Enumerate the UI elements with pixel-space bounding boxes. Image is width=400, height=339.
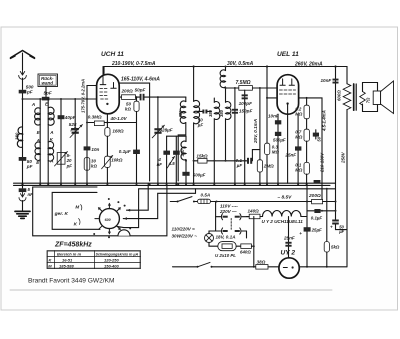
wire coil column right	[47, 99, 49, 183]
tube UY2	[279, 258, 299, 278]
svg-text:16-51: 16-51	[62, 257, 73, 262]
wire chassis bus lower	[14, 184, 331, 186]
svg-text:kΩ: kΩ	[91, 164, 97, 169]
svg-text:210-190V, 0-7.5mA: 210-190V, 0-7.5mA	[111, 61, 156, 67]
svg-text:120-250: 120-250	[104, 257, 119, 262]
resistor secondary zigzag	[360, 92, 366, 106]
svg-text:10nF: 10nF	[321, 78, 332, 83]
resistor 5kOhm	[326, 189, 328, 242]
antenna socket cup	[19, 76, 27, 80]
capacitor 0.1uF osc	[133, 150, 140, 154]
svg-text:260V, 20mA: 260V, 20mA	[294, 62, 323, 68]
svg-text:100pF: 100pF	[239, 101, 252, 106]
svg-text:15kΩ: 15kΩ	[196, 154, 208, 159]
wire AVC column	[86, 99, 88, 183]
wire to UEL left	[267, 97, 277, 99]
node input dot	[22, 98, 24, 100]
svg-text:µF: µF	[236, 163, 243, 168]
capacitor 4nF	[166, 136, 168, 183]
capacitor 25nF UY2	[288, 217, 290, 258]
svg-text:10kΩ: 10kΩ	[111, 158, 123, 163]
wire 7.5M to UEL grid	[252, 87, 277, 89]
heater chain bumps	[260, 211, 307, 217]
svg-text:640Ω: 640Ω	[240, 250, 251, 255]
inductor antenna coil 380	[17, 127, 22, 147]
inductor IF1 secondary	[194, 100, 200, 123]
ground socket cup	[19, 198, 26, 202]
UEL11 grid dashes	[279, 90, 295, 94]
inductor osc anode coil	[225, 67, 227, 71]
svg-text:210-190V: 210-190V	[319, 152, 324, 173]
svg-text:165-110V, 4-6mA: 165-110V, 4-6mA	[121, 77, 160, 83]
capacitor 0.1uF filter	[314, 209, 320, 213]
svg-text:+: +	[299, 231, 302, 236]
trimmer 528pF osc	[157, 97, 159, 183]
svg-text:0.1µF: 0.1µF	[119, 149, 131, 154]
svg-text:110/220V ≈: 110/220V ≈	[172, 227, 196, 232]
tuning box inner	[52, 192, 100, 229]
capacitor 150pF	[234, 88, 236, 183]
wire UY2 right	[299, 266, 347, 268]
mains switch bottom	[173, 266, 198, 268]
capacitor 25nF cathode	[297, 114, 299, 183]
svg-text:pF: pF	[66, 163, 73, 168]
svg-text:25nF: 25nF	[284, 153, 296, 158]
svg-text:Schwingungskreis in µA: Schwingungskreis in µA	[96, 252, 139, 256]
speaker voice coil	[373, 91, 380, 105]
svg-text:wand: wand	[42, 81, 54, 86]
svg-text:20: 20	[66, 158, 72, 163]
selector link dashed	[230, 219, 232, 230]
svg-text:U Y 2 UCH11UEL11: U Y 2 UCH11UEL11	[262, 219, 304, 224]
wire chassis bus upper	[14, 182, 336, 184]
capacitor 10nF grid	[277, 114, 279, 183]
svg-text:380: 380	[208, 109, 213, 117]
tube UEL11	[277, 75, 299, 115]
node bus dots coils	[39, 183, 41, 185]
svg-text:50pF: 50pF	[135, 88, 146, 93]
wire heater return	[253, 217, 255, 267]
svg-text:25µF: 25µF	[311, 228, 322, 233]
wire IF1 secondary bottom	[193, 123, 195, 183]
capacitor 500pF	[19, 90, 27, 94]
wire osc coil bottom	[213, 119, 215, 183]
wire Rueckwand down	[45, 87, 47, 97]
UCH11 anode T-bar	[100, 67, 106, 85]
svg-text:UEL 11: UEL 11	[277, 51, 299, 58]
resistor 0.3MOhm	[94, 121, 104, 126]
wire padder column	[60, 99, 62, 183]
svg-text:A: A	[49, 130, 53, 135]
measurement table	[47, 251, 141, 269]
wire fuse to 200 Ohm	[211, 201, 312, 203]
wire B+ right drop	[335, 67, 337, 220]
tube UCH11	[97, 74, 120, 114]
inductor band coil	[185, 136, 187, 141]
svg-text:185-588: 185-588	[59, 263, 74, 268]
wire filter node	[307, 210, 336, 212]
svg-text:ZF=458kHz: ZF=458kHz	[54, 242, 92, 249]
svg-text:20V, 0.1mA: 20V, 0.1mA	[253, 119, 258, 144]
capacitor 50pF IF	[197, 110, 202, 112]
UCH11 grid dashes	[100, 89, 108, 100]
svg-text:200Ω: 200Ω	[121, 88, 134, 93]
wire primary bottom drop	[346, 110, 348, 267]
dial spokes	[95, 204, 120, 234]
wire osc coil to 7.5M	[226, 87, 239, 89]
capacitor 5nF to ground	[22, 183, 24, 188]
tuning box outer	[33, 185, 167, 235]
wire osc grid	[145, 96, 186, 98]
UY2 filament dash	[283, 267, 287, 269]
svg-text:18V, 0.1A: 18V, 0.1A	[216, 235, 236, 240]
inductor input coil upper left	[35, 108, 41, 125]
svg-text:0.1µF: 0.1µF	[311, 215, 323, 220]
wire 15k row	[194, 160, 245, 162]
coil terminal labels	[36, 130, 54, 165]
svg-text:40-1.0V: 40-1.0V	[110, 116, 128, 121]
wire grid leak column	[259, 88, 261, 183]
potentiometer 10kOhm	[105, 156, 111, 167]
capacitor 10nF avc	[84, 146, 91, 150]
capacitor 5pF	[42, 97, 50, 101]
svg-text:50: 50	[317, 136, 322, 141]
wire B+ top rail	[104, 67, 347, 84]
UEL11 electrode T-bars	[280, 79, 285, 85]
node screen feed dot	[266, 65, 268, 67]
svg-text:30V, 0.5mA: 30V, 0.5mA	[227, 61, 254, 67]
svg-text:UY 2: UY 2	[281, 250, 296, 257]
svg-text:380: 380	[219, 109, 224, 117]
svg-text:Bereich in m: Bereich in m	[57, 251, 81, 256]
resistor 0.2MOhm	[306, 98, 308, 105]
svg-text:0.3MΩ: 0.3MΩ	[88, 115, 102, 120]
svg-text:25nF: 25nF	[283, 236, 295, 241]
svg-text:140Ω: 140Ω	[248, 208, 260, 213]
ground plug arrow	[20, 192, 24, 197]
svg-text:220V —: 220V —	[219, 209, 237, 214]
inductor input coil upper right	[48, 107, 54, 125]
capacitor 500uF	[182, 172, 189, 176]
svg-text:M: M	[75, 205, 79, 210]
svg-text:– 8.5V: – 8.5V	[278, 194, 293, 200]
speaker secondary loop	[363, 83, 378, 92]
ZF bump on box line	[118, 230, 130, 236]
resistor 0.1MOhm	[306, 141, 308, 162]
wire antenna lead	[22, 53, 24, 70]
wire antenna line down	[22, 93, 24, 99]
svg-text:A: A	[31, 102, 36, 108]
svg-text:Brandt Favorit 3449 GW2/KM: Brandt Favorit 3449 GW2/KM	[28, 278, 115, 285]
inductor input coil lower right	[48, 141, 53, 161]
speaker cone	[381, 81, 394, 114]
svg-text:4.5-1.4mA: 4.5-1.4mA	[321, 110, 326, 132]
resistor 600 Ohm output primary	[343, 84, 351, 110]
Rueckwand box	[38, 74, 58, 87]
capacitor 50uF	[332, 220, 339, 222]
dial drum circle	[99, 209, 119, 229]
node B+ junction dot	[334, 65, 336, 67]
node bus dot antenna	[21, 183, 23, 185]
wire UEL anode	[299, 98, 322, 200]
UCH11 cathode dot	[106, 103, 108, 105]
wire UEL cathode column	[287, 104, 289, 184]
wire rectifier output column	[306, 183, 308, 266]
svg-text:38Ω: 38Ω	[257, 260, 266, 265]
transformer core	[353, 84, 355, 110]
svg-text:10n: 10n	[91, 147, 99, 152]
svg-text:380: 380	[15, 132, 20, 140]
svg-text:528µF: 528µF	[160, 128, 173, 133]
inductor osc tuned coil	[225, 87, 227, 102]
resistor 30kOhm	[84, 158, 90, 171]
svg-text:600Ω: 600Ω	[337, 90, 342, 101]
capacitor 40pF	[58, 115, 65, 119]
mains switch top	[170, 201, 177, 203]
capacitor 10nF B+	[333, 79, 339, 81]
svg-text:U 2x10 PL: U 2x10 PL	[215, 253, 236, 258]
svg-text:ger. K: ger. K	[54, 211, 69, 217]
svg-text:10nF: 10nF	[268, 113, 279, 118]
svg-text:600: 600	[105, 218, 111, 222]
svg-text:µF: µF	[197, 122, 204, 127]
resistor 0.7MOhm	[306, 119, 308, 129]
wire osc anode coil feed	[193, 67, 195, 102]
node osc feed dot	[193, 65, 195, 67]
svg-text:7Ω: 7Ω	[366, 97, 371, 103]
svg-text:5pF: 5pF	[44, 90, 52, 95]
capacitor blob on bus	[314, 180, 321, 183]
svg-text:MΩ: MΩ	[295, 134, 303, 139]
svg-text:500µF: 500µF	[193, 173, 206, 178]
svg-text:7.5MΩ: 7.5MΩ	[236, 80, 251, 86]
dial cord line B	[123, 189, 195, 219]
wire coil column E left	[39, 99, 41, 183]
dial spoke arrowheads	[98, 203, 121, 235]
UEL11 cathode dot	[286, 102, 288, 104]
inductor input coil lower left	[35, 142, 40, 160]
svg-text:380: 380	[178, 110, 183, 118]
wire UCH cathode column	[106, 114, 108, 183]
svg-text:175-70V, 0-2.2mA: 175-70V, 0-2.2mA	[81, 79, 86, 113]
node dot	[39, 98, 41, 100]
dial cord line A	[127, 183, 149, 210]
svg-text:nF: nF	[157, 162, 163, 167]
svg-text:kΩ: kΩ	[125, 107, 131, 112]
svg-text:258V: 258V	[340, 151, 345, 164]
svg-text:pF: pF	[26, 164, 33, 169]
capacitor 25uF	[304, 227, 311, 231]
voltage selector row2	[216, 230, 221, 232]
ballast U2x10PL	[218, 242, 236, 251]
resistor 50kOhm	[136, 97, 138, 183]
voltage selector row1	[215, 202, 217, 232]
svg-text:A: A	[49, 159, 53, 164]
svg-text:pF: pF	[26, 90, 33, 95]
bottom scan edge line	[10, 289, 332, 291]
wire screen line	[119, 83, 149, 181]
svg-text:110V ----: 110V ----	[220, 204, 238, 209]
svg-text:MΩ: MΩ	[295, 168, 303, 173]
ground	[15, 211, 30, 218]
trimmer 5-20pF	[57, 153, 65, 165]
inductor osc grid coil	[213, 98, 215, 102]
capacitor 100pF	[244, 90, 246, 183]
resistor 0.3MOhm UEL	[265, 143, 270, 154]
svg-text:UCH 11: UCH 11	[101, 51, 124, 58]
wire grid input horizontal	[23, 98, 97, 100]
svg-text:5kΩ: 5kΩ	[331, 244, 340, 249]
svg-text:200Ω: 200Ω	[308, 193, 321, 199]
svg-text:A: A	[36, 138, 40, 143]
svg-text:2MΩ: 2MΩ	[263, 163, 274, 168]
antenna plug arrow	[20, 70, 24, 75]
antenna symbol	[11, 51, 35, 59]
svg-text:500µF: 500µF	[273, 138, 286, 143]
resistor 2MOhm	[257, 160, 262, 172]
trimmer 4.5	[175, 136, 177, 183]
svg-text:+: +	[330, 224, 333, 229]
dial cord line C	[117, 189, 336, 228]
wire to ground	[22, 201, 24, 212]
capacitor 50pF coupling	[315, 130, 317, 139]
svg-text:30W/220V ~: 30W/220V ~	[172, 234, 198, 239]
wire variable cap column	[74, 99, 76, 183]
svg-text:160Ω: 160Ω	[112, 129, 124, 134]
capacitor 50pF antenna	[19, 157, 27, 161]
svg-text:150pF: 150pF	[239, 108, 252, 113]
lamp wires	[209, 231, 217, 234]
dial dots	[93, 198, 131, 238]
lamp scale	[205, 234, 214, 243]
wire antenna branch down	[22, 99, 24, 183]
svg-text:MΩ: MΩ	[295, 112, 303, 117]
svg-text:0.5A: 0.5A	[201, 192, 211, 197]
resistor 160 Ohm	[105, 128, 110, 137]
wire antenna to C500	[22, 78, 24, 90]
resistor 640 Ohm	[236, 245, 241, 247]
wire bottom to 38 Ohm	[212, 266, 256, 268]
svg-text:4.5: 4.5	[168, 161, 176, 166]
svg-text:40pF: 40pF	[64, 115, 76, 120]
wire padder pair top link	[167, 135, 186, 137]
wire screen grid column	[266, 67, 268, 184]
wire hexode grid riser	[87, 86, 97, 100]
wire 0.3M to cathode	[87, 122, 137, 124]
wire IF1 primary feed	[185, 97, 187, 102]
svg-text:380: 380	[180, 149, 185, 157]
wire IF1 primary bottom	[178, 123, 186, 181]
UCH11 grid2 T-bar	[111, 83, 116, 89]
fuse 0.5A	[194, 201, 198, 203]
inductor IF1 primary	[180, 101, 186, 123]
capacitor 500uF UEL	[275, 132, 281, 136]
svg-text:150-400: 150-400	[104, 263, 119, 268]
